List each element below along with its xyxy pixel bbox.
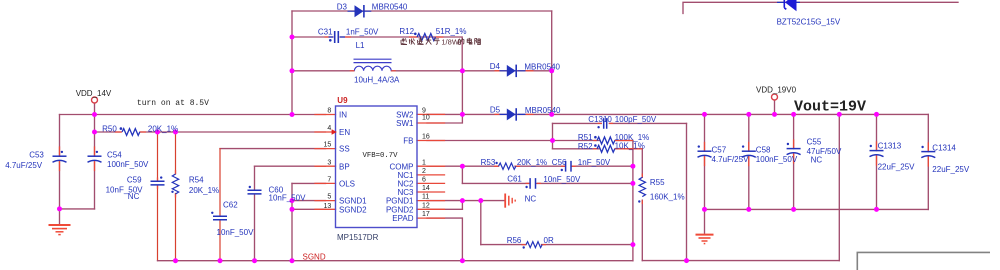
wire right vertical of top loop <box>551 11 553 114</box>
svg-text:1/8W: 1/8W <box>441 37 459 46</box>
node SGND1 tap <box>290 198 295 203</box>
node comp net R51 <box>630 164 635 169</box>
svg-text:Vout=19V: Vout=19V <box>794 99 866 116</box>
svg-text:11: 11 <box>422 194 429 201</box>
node L1 right D4 anode <box>460 68 465 73</box>
svg-text:MBR0540: MBR0540 <box>524 63 560 72</box>
svg-text:22uF_25V: 22uF_25V <box>878 163 916 172</box>
svg-text:7: 7 <box>327 177 331 184</box>
svg-text:15: 15 <box>324 142 332 149</box>
svg-text:10nF_50V: 10nF_50V <box>269 194 307 203</box>
IC U9 body MP1517DR <box>336 106 418 228</box>
capacitor C60 <box>248 186 262 194</box>
node SGND2 tap <box>290 207 295 212</box>
capacitor C57 polarized <box>698 145 712 157</box>
power symbol VDD_19V0 <box>772 94 778 100</box>
svg-text:100pF_50V: 100pF_50V <box>615 115 657 124</box>
wire output ground bus <box>705 208 929 210</box>
node COMP tap <box>460 164 465 169</box>
capacitor C62 <box>211 212 227 220</box>
svg-text:C61: C61 <box>507 175 522 184</box>
resistor R53 <box>494 162 520 170</box>
wire C61 line <box>462 182 633 184</box>
resistor R55 vertical <box>638 174 645 205</box>
svg-text:100nF_50V: 100nF_50V <box>107 160 149 169</box>
capacitor C58 polarized <box>742 145 756 157</box>
node VIN IN tap <box>290 112 295 117</box>
svg-text:OLS: OLS <box>339 180 355 189</box>
node C59 EN tap <box>155 130 160 135</box>
svg-text:C1313: C1313 <box>878 141 902 150</box>
svg-text:PGND2: PGND2 <box>386 205 414 214</box>
power symbol VDD_14V <box>92 97 98 103</box>
svg-text:D5: D5 <box>490 106 501 115</box>
node comp net R56 <box>630 242 635 247</box>
node R50 EN <box>92 130 97 135</box>
node rail C62 <box>218 258 223 263</box>
svg-text:160K_1%: 160K_1% <box>650 193 685 202</box>
wire C60 branch <box>254 166 256 261</box>
svg-text:R55: R55 <box>650 178 665 187</box>
svg-text:C62: C62 <box>223 201 238 210</box>
node R54 EN tap <box>173 130 178 135</box>
wire PGND2 line <box>427 208 462 210</box>
svg-text:VDD_19V0: VDD_19V0 <box>756 86 797 95</box>
svg-text:COMP: COMP <box>390 162 414 171</box>
svg-text:R50: R50 <box>102 125 117 134</box>
svg-text:FB: FB <box>403 137 413 146</box>
wire SGND2 line <box>292 208 326 210</box>
node bus C55 <box>791 207 796 212</box>
wire C55 branch <box>793 114 795 209</box>
svg-text:1: 1 <box>422 159 426 166</box>
ground symbol chassis at C53 C54 <box>49 225 71 235</box>
wire R52 line <box>553 148 643 150</box>
inductor L1 <box>350 59 396 71</box>
wire top loop horizontal VIN to snubber <box>292 10 552 12</box>
svg-text:NC: NC <box>128 192 140 201</box>
wire C1310 right vertical <box>686 123 688 260</box>
svg-text:C31: C31 <box>318 28 333 37</box>
resistor R54 vertical <box>171 170 178 198</box>
node Vout VDD19 <box>772 112 777 117</box>
resistor R56 <box>522 242 547 249</box>
wire SW2 and Vout rail <box>427 113 928 115</box>
node Vout C57 <box>702 112 707 117</box>
svg-text:R54: R54 <box>189 175 204 184</box>
pin NC3 stub <box>417 191 445 193</box>
node VDD14 on IN <box>92 112 97 117</box>
svg-text:SS: SS <box>339 145 350 154</box>
svg-text:PGND1: PGND1 <box>386 197 414 206</box>
op-amp U9 pin stubs left <box>315 115 336 210</box>
node fb rail C1310 <box>684 258 689 263</box>
resistor R52 <box>594 144 643 152</box>
wire VDD_19V0 stub <box>774 100 776 114</box>
diode D5 <box>495 108 534 121</box>
node comp net C61 <box>630 181 635 186</box>
node C53 gnd <box>57 206 62 211</box>
node Vout fbvert <box>837 112 842 117</box>
wire C62 branch red <box>219 149 221 261</box>
svg-text:R12: R12 <box>399 27 414 36</box>
node bus C1313 <box>874 207 879 212</box>
svg-text:C59: C59 <box>127 175 142 184</box>
svg-text:10: 10 <box>422 115 430 122</box>
resistor R50 <box>115 127 146 135</box>
wire FB line to R51 <box>427 140 633 142</box>
wire C58 branch <box>748 114 750 209</box>
capacitor C61 <box>525 178 541 189</box>
node VIN L1 tap <box>290 68 295 73</box>
capacitor C54 polarized <box>88 151 102 163</box>
svg-text:2: 2 <box>422 168 426 175</box>
wire C31 R12 snubber line <box>292 37 462 71</box>
svg-text:BZT52C15G_15V: BZT52C15G_15V <box>777 18 841 27</box>
svg-text:C53: C53 <box>29 151 44 160</box>
svg-text:C55: C55 <box>807 137 822 146</box>
svg-text:VDD_14V: VDD_14V <box>76 89 112 98</box>
diode D3 <box>348 5 372 18</box>
svg-text:16: 16 <box>422 134 430 141</box>
wire ground link C53 C54 <box>60 209 95 224</box>
node bus C57 <box>702 207 707 212</box>
node Vout C1313 <box>874 112 879 117</box>
wire C57 branch <box>704 114 706 233</box>
svg-text:10nF_50V: 10nF_50V <box>543 175 581 184</box>
EN input arrow <box>332 129 337 135</box>
svg-text:NC: NC <box>525 195 537 204</box>
capacitor C59 <box>151 176 165 188</box>
svg-text:turn on at 8.5V: turn on at 8.5V <box>137 99 209 108</box>
diode D4 <box>495 65 534 78</box>
svg-text:51R_1%: 51R_1% <box>436 27 467 36</box>
wire R56 line <box>481 244 633 246</box>
capacitor C55 polarized <box>787 143 801 155</box>
svg-text:MBR0540: MBR0540 <box>525 106 561 115</box>
svg-text:1nF_50V: 1nF_50V <box>578 158 611 167</box>
wire C1310 line <box>553 122 687 124</box>
svg-text:20K_1%: 20K_1% <box>189 186 219 195</box>
svg-text:SGND: SGND <box>303 252 326 261</box>
node rail R54 <box>173 258 178 263</box>
svg-text:C1310: C1310 <box>588 115 612 124</box>
svg-text:0R: 0R <box>544 236 554 245</box>
wire R52 to R55 vertical <box>641 149 643 261</box>
resistor R51 <box>594 136 633 144</box>
svg-text:D4: D4 <box>490 62 501 71</box>
ground symbol at output C57 <box>696 235 714 244</box>
svg-text:4: 4 <box>327 125 331 132</box>
svg-text:C58: C58 <box>756 145 771 154</box>
wire EN line through R50 <box>95 131 326 133</box>
svg-text:8: 8 <box>327 108 331 115</box>
capacitor C31 <box>325 31 352 43</box>
svg-text:IN: IN <box>339 111 347 120</box>
node Vout C55 <box>791 112 796 117</box>
zener diode BZT52C15G clipped at top <box>777 0 800 11</box>
svg-text:R53: R53 <box>481 158 496 167</box>
wire C53 branch <box>59 115 61 209</box>
svg-text:C54: C54 <box>107 151 122 160</box>
node D4 cathode <box>549 68 554 73</box>
capacitor C56 <box>561 161 576 172</box>
svg-text:10uH_4A/3A: 10uH_4A/3A <box>354 76 400 85</box>
wire SGND rail <box>158 260 633 262</box>
wire PGND1 vertical to SGND rail <box>461 201 463 210</box>
wire BP line <box>255 165 326 167</box>
svg-text:20K_1%: 20K_1% <box>517 158 547 167</box>
svg-text:MBR0540: MBR0540 <box>372 3 408 12</box>
wire feedback bottom rail <box>642 260 839 262</box>
wire SGND1 line <box>292 200 326 202</box>
capacitor C1314 polarized <box>921 146 935 158</box>
svg-text:100nF_50V: 100nF_50V <box>756 155 798 164</box>
svg-text:4.7uF/25V: 4.7uF/25V <box>5 161 43 170</box>
page frame corner bottom right <box>857 252 990 270</box>
wire SW node to L1 D4 vertical <box>461 71 463 115</box>
svg-text:R56: R56 <box>507 236 522 245</box>
wire C54 branch <box>94 115 96 209</box>
svg-text:C57: C57 <box>712 145 727 154</box>
op-amp U9 pin stubs right <box>417 114 445 218</box>
node FB <box>550 138 555 143</box>
wire L1 line <box>292 70 552 72</box>
node rail OLS <box>290 258 295 263</box>
wire C1313 branch <box>876 114 878 209</box>
svg-text:5: 5 <box>327 194 331 201</box>
node Vout left <box>549 112 554 117</box>
wire IN line <box>60 114 326 116</box>
svg-text:NC: NC <box>811 155 823 164</box>
wire OLS vertical to SGND rail <box>291 183 293 260</box>
svg-text:22uF_25V: 22uF_25V <box>932 165 970 174</box>
svg-text:6: 6 <box>422 177 426 184</box>
svg-text:13: 13 <box>324 203 332 210</box>
node rail PGND <box>460 258 465 263</box>
pin NC1 stub <box>417 174 445 176</box>
svg-text:12: 12 <box>422 202 430 209</box>
wire C59 branch red <box>157 132 159 261</box>
svg-text:1nF_50V: 1nF_50V <box>346 28 379 37</box>
wire left vertical VIN riser <box>291 11 293 115</box>
svg-text:9: 9 <box>422 108 426 115</box>
wire C1314 branch <box>927 114 929 209</box>
wire PGND1 to R56 vertical <box>480 201 482 245</box>
svg-text:SW1: SW1 <box>396 119 414 128</box>
wire SW1 jog <box>427 114 462 123</box>
wire R51 right vertical into COMP node <box>632 141 634 261</box>
svg-text:4.7uF/25V: 4.7uF/25V <box>712 155 750 164</box>
node bus C58 <box>746 207 751 212</box>
wire Vout to feedback rail vertical <box>838 114 840 260</box>
svg-text:D3: D3 <box>337 2 348 11</box>
svg-text:3: 3 <box>327 159 331 166</box>
node VIN snubber tap <box>290 35 295 40</box>
svg-text:C1314: C1314 <box>932 143 956 152</box>
svg-text:VFB=0.7V: VFB=0.7V <box>363 152 399 160</box>
svg-text:C56: C56 <box>552 158 567 167</box>
resistor R12 <box>409 33 444 41</box>
wire PGND1 line <box>427 200 504 202</box>
capacitor C53 polarized <box>53 151 67 163</box>
capacitor C1313 polarized <box>870 145 884 157</box>
ground symbol sideways at PGND1 <box>505 194 515 208</box>
wire R54 branch red <box>175 132 177 261</box>
wire COMP to C61 vertical <box>461 166 463 183</box>
svg-text:EPAD: EPAD <box>392 214 413 223</box>
wire VDD_14V stub <box>94 103 96 114</box>
node SW <box>460 112 465 117</box>
svg-text:10K_1%: 10K_1% <box>615 142 645 151</box>
svg-text:SGND2: SGND2 <box>339 205 367 214</box>
svg-text:SGND1: SGND1 <box>339 197 367 206</box>
wire FB node vertical <box>552 123 554 148</box>
svg-text:BP: BP <box>339 162 350 171</box>
note chinese resistor advice <box>401 38 481 45</box>
svg-text:14: 14 <box>422 185 430 192</box>
svg-text:10nF_50V: 10nF_50V <box>217 228 255 237</box>
svg-text:17: 17 <box>422 211 430 218</box>
svg-text:R52: R52 <box>578 142 593 151</box>
wire zener rail top right <box>683 2 958 13</box>
capacitor C1310 <box>597 118 613 129</box>
svg-text:L1: L1 <box>356 41 365 50</box>
wire SS line <box>220 148 326 150</box>
node Vout C58 <box>746 112 751 117</box>
svg-text:20K_1%: 20K_1% <box>148 124 178 133</box>
node PGND1 tap2 <box>478 198 483 203</box>
svg-text:U9: U9 <box>337 96 348 105</box>
wire EPAD line <box>427 218 462 261</box>
wire OLS line <box>292 182 326 184</box>
svg-text:EN: EN <box>339 128 350 137</box>
node PGND1 tap1 <box>460 198 465 203</box>
wire COMP line through R53 C56 <box>427 165 633 167</box>
svg-text:MP1517DR: MP1517DR <box>337 233 379 242</box>
pin NC2 stub <box>417 182 445 184</box>
node rail C60 <box>252 258 257 263</box>
